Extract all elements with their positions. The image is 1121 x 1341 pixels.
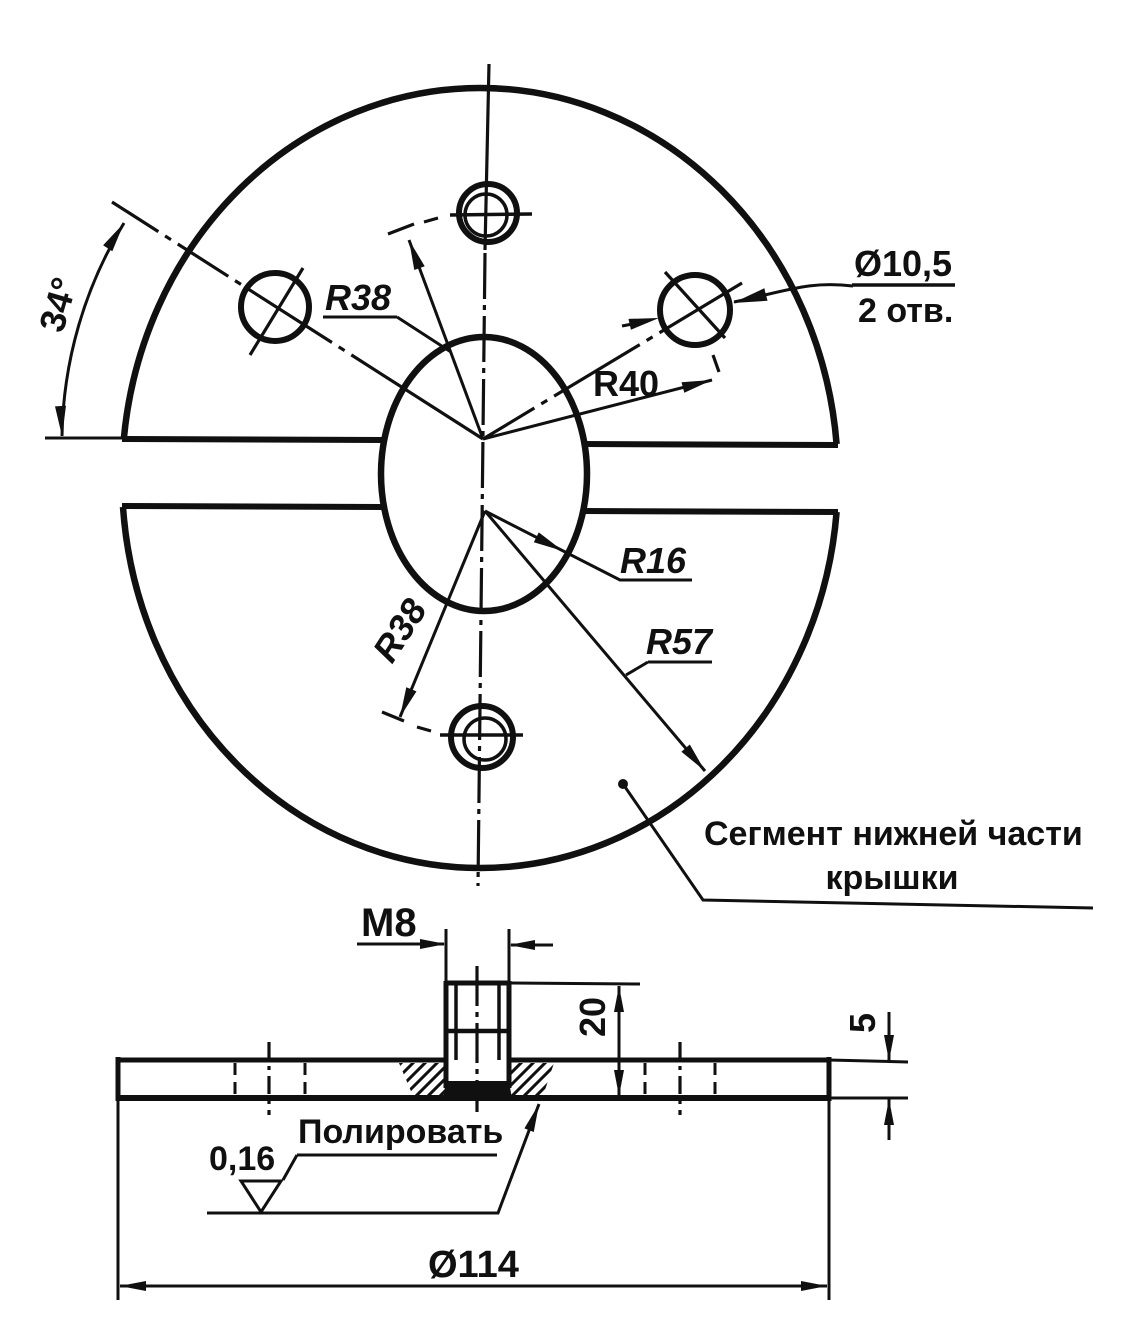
svg-text:0,16: 0,16: [209, 1140, 275, 1178]
svg-text:Полировать: Полировать: [298, 1113, 503, 1151]
svg-text:R16: R16: [620, 540, 687, 581]
svg-text:M8: M8: [361, 901, 417, 945]
svg-text:Ø10,5: Ø10,5: [854, 243, 952, 284]
svg-text:R57: R57: [646, 621, 714, 662]
svg-text:2 отв.: 2 отв.: [858, 292, 953, 330]
svg-text:Сегмент нижней части: Сегмент нижней части: [704, 815, 1083, 853]
svg-text:5: 5: [842, 1013, 883, 1033]
svg-text:20: 20: [572, 997, 613, 1037]
svg-text:R40: R40: [593, 363, 659, 404]
svg-text:Ø114: Ø114: [428, 1244, 519, 1286]
svg-text:R38: R38: [325, 277, 391, 318]
svg-text:крышки: крышки: [825, 859, 958, 897]
